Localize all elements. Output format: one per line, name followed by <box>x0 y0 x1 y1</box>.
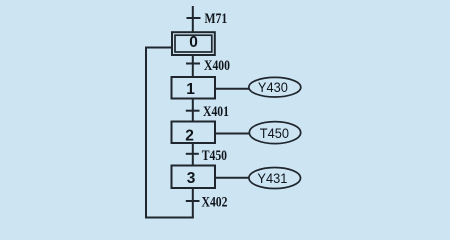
svg-text:X401: X401 <box>203 103 229 120</box>
coil T450 (ellipse) <box>249 122 300 144</box>
label 1 (step number) <box>186 81 195 98</box>
label X400 <box>204 57 230 74</box>
svg-text:2: 2 <box>185 127 194 144</box>
wire: spine below step 3 to bottom <box>192 188 194 218</box>
transition X402 (tick) <box>186 200 200 202</box>
step 0 (initial step, double box) <box>172 32 215 55</box>
label X401 <box>203 103 229 120</box>
wire: main vertical spine top segment <box>192 6 194 33</box>
wire: spine between step 0 and step 1 <box>192 55 194 78</box>
step 2 (box) <box>172 122 216 144</box>
svg-text:T450: T450 <box>260 126 289 142</box>
transition M71 (tick) <box>187 17 201 19</box>
svg-text:Y431: Y431 <box>257 171 287 187</box>
label Y431 <box>257 171 287 187</box>
step 1 (box) <box>172 77 216 99</box>
label T450 (transition) <box>202 147 228 164</box>
transition X400 (tick) <box>186 63 200 65</box>
label M71 <box>205 9 228 26</box>
label 2 (step number) <box>185 127 194 144</box>
transition T450 (tick) <box>186 153 199 155</box>
svg-text:X400: X400 <box>204 57 230 74</box>
wire: step 2 to coil T450 <box>215 133 250 135</box>
svg-text:X402: X402 <box>202 193 228 210</box>
coil Y430 (ellipse) <box>249 77 301 97</box>
transition X401 (tick) <box>186 110 200 112</box>
wire: step 3 to coil Y431 <box>215 177 249 179</box>
label 0 (step number) <box>189 34 198 51</box>
wire: feedback loop (bottom, left side, top back to step 0) <box>146 48 194 218</box>
svg-text:0: 0 <box>189 34 198 51</box>
label Y430 <box>258 80 288 96</box>
label 3 (step number) <box>187 170 196 187</box>
label T450 <box>260 126 289 142</box>
label X402 <box>202 193 228 210</box>
svg-text:M71: M71 <box>205 9 228 26</box>
step 3 (box) <box>172 166 216 189</box>
svg-text:3: 3 <box>187 170 196 187</box>
coil Y431 (ellipse) <box>249 168 301 189</box>
svg-text:Y430: Y430 <box>258 80 288 96</box>
wire: spine between step 1 and step 2 <box>192 99 194 122</box>
svg-text:T450: T450 <box>202 147 228 164</box>
wire: spine between step 2 and step 3 <box>192 143 194 166</box>
wire: step 1 to coil Y430 <box>215 88 249 90</box>
svg-text:1: 1 <box>186 81 195 98</box>
